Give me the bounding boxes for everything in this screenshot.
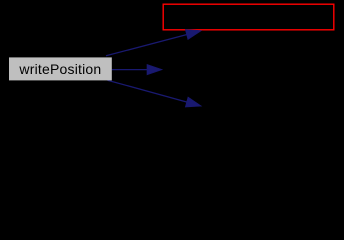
wire edge to red box <box>106 30 201 56</box>
node writePosition <box>9 57 112 80</box>
wire bottom edge <box>108 80 202 107</box>
truncated node (red box) <box>163 4 334 30</box>
svg-text:writePosition: writePosition <box>18 61 101 77</box>
wire middle edge <box>112 64 163 74</box>
